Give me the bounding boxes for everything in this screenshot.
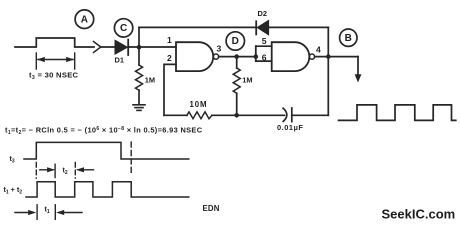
- node B: [340, 29, 357, 46]
- node D: [226, 32, 244, 50]
- resistor R2 1M: [233, 57, 240, 116]
- ground: [133, 105, 145, 111]
- wire: pin 6 stub: [256, 60, 272, 62]
- svg-text:4: 4: [316, 44, 321, 54]
- junction node D dot: [234, 54, 239, 59]
- svg-text:D1: D1: [115, 55, 124, 64]
- svg-text:t1=t2= − RCln 0.5 = − (106 × 1: t1=t2= − RCln 0.5 = − (106 × 10−8 × ln 0…: [5, 126, 203, 136]
- svg-text:D: D: [232, 36, 239, 47]
- svg-text:6: 6: [262, 53, 267, 63]
- svg-text:3: 3: [217, 43, 222, 53]
- output square wave: [339, 105, 456, 121]
- svg-text:t1 + t2: t1 + t2: [4, 185, 23, 195]
- svg-text:5: 5: [262, 36, 267, 46]
- wire: gate2 output to arrow: [315, 56, 358, 58]
- timing waveform t1+t2: [26, 182, 189, 197]
- diode D1: [115, 40, 128, 55]
- input arrowhead chevron: [94, 42, 101, 53]
- wire: junction C up to feedback rail: [138, 27, 140, 47]
- svg-text:C: C: [120, 23, 127, 34]
- wire: pin 5 stub: [256, 45, 272, 47]
- wire: capacitor to feedback vertical: [292, 114, 329, 116]
- svg-text:D2: D2: [258, 9, 267, 18]
- wire: gate1 output to gate2 inputs: [219, 56, 256, 58]
- svg-text:t3: t3: [10, 154, 15, 164]
- output arrow down: [355, 57, 362, 83]
- svg-text:1: 1: [167, 35, 172, 45]
- junction dot at tie bar: [254, 54, 259, 59]
- wire: D1 to gate1 pin1: [128, 46, 176, 48]
- wire: bottom rail left: [164, 114, 187, 116]
- wire: gate1 pin2 feedback from bottom rail: [164, 64, 176, 115]
- svg-text:t2: t2: [63, 166, 68, 176]
- node A: [75, 10, 94, 29]
- svg-text:A: A: [81, 14, 88, 25]
- junction dot output 4: [326, 54, 331, 59]
- wire: arrowhead to diode D1: [101, 46, 115, 48]
- node C: [114, 19, 132, 37]
- t2 measurement arrows: [40, 164, 94, 177]
- wire: feedback top rail left segment: [139, 26, 256, 28]
- gate2 input tie bar: [255, 46, 257, 61]
- dashed alignment line 2: [74, 163, 76, 179]
- svg-text:SeekIC.com: SeekIC.com: [382, 207, 456, 222]
- svg-text:t1: t1: [45, 205, 50, 215]
- resistor R3 10M: [187, 112, 212, 119]
- dashed alignment line 1: [35, 163, 37, 179]
- wire: feedback vertical from rail through output 4 to capacitor: [327, 27, 329, 115]
- NAND gate U1: [176, 42, 219, 71]
- svg-text:2: 2: [167, 53, 172, 63]
- svg-text:B: B: [345, 33, 352, 44]
- timing waveform t3: [24, 142, 189, 159]
- svg-text:EDN: EDN: [203, 204, 220, 213]
- svg-text:1M: 1M: [145, 75, 155, 84]
- wire: 10M to capacitor: [212, 114, 285, 116]
- svg-text:10M: 10M: [190, 100, 208, 109]
- svg-text:0.01µF: 0.01µF: [277, 123, 303, 132]
- junction C dot: [137, 45, 142, 50]
- svg-text:1M: 1M: [242, 76, 252, 85]
- input pulse waveform symbol: [15, 38, 94, 47]
- wire: feedback top rail right segment: [269, 26, 329, 28]
- diode D2: [256, 20, 268, 34]
- resistor R1 1M: [136, 47, 143, 104]
- svg-text:t3 = 30 NSEC: t3 = 30 NSEC: [29, 71, 79, 82]
- junction dot R2 to bottom rail: [234, 113, 239, 118]
- dashed alignment line 3: [130, 142, 132, 172]
- t3 width measurement arrows: [36, 53, 74, 69]
- t1 measurement arrows: [15, 205, 82, 220]
- NAND gate U2: [272, 42, 315, 71]
- capacitor C1: [283, 108, 292, 122]
